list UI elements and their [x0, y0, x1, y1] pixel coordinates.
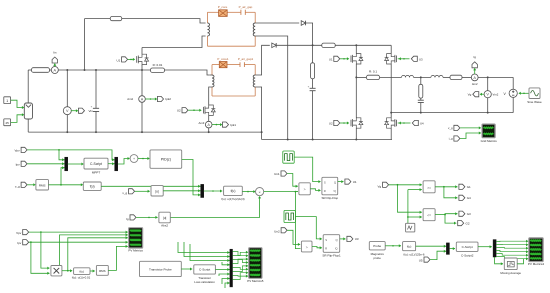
svg-text:U3: U3: [355, 237, 359, 241]
svg-text:Sine Wave: Sine Wave: [527, 100, 542, 104]
svg-text:U1: U1: [329, 57, 333, 61]
svg-text:i_g: i_g: [448, 137, 453, 141]
svg-text:C-Script2: C-Script2: [461, 253, 474, 257]
svg-text:f(u): f(u): [407, 245, 412, 249]
capacitor C_in: [95, 70, 97, 108]
node J4: [141, 69, 143, 71]
wire pulse1 to S: [294, 157, 320, 182]
wire Vpv run: [27, 150, 114, 160]
svg-text:!Q: !Q: [335, 247, 338, 251]
diode D2: [272, 43, 276, 48]
transistor Q1: [136, 56, 138, 63]
block Abs2: [159, 212, 170, 223]
goto tag U1: [345, 179, 351, 184]
node ob1: [420, 112, 422, 114]
scope Grid Metrics: [482, 124, 495, 138]
wire vb run: [389, 184, 422, 186]
wire scope in3 tap: [68, 238, 128, 271]
node g1: [287, 139, 289, 141]
wire source M1: [141, 65, 143, 70]
svg-text:×: ×: [258, 190, 260, 194]
wire left rail y47.5: [142, 36, 206, 48]
svg-text:v_g: v_g: [448, 126, 453, 130]
resistor Rf: [450, 75, 462, 79]
node carrier: [407, 216, 409, 218]
constant block 25: [4, 119, 11, 126]
svg-text:probe: probe: [373, 256, 381, 260]
goto tag G1: [459, 184, 465, 189]
wire left ground rail: [28, 131, 261, 133]
resistor R_top: [110, 17, 122, 21]
block Probe: [369, 242, 385, 250]
filter damping branch: [420, 77, 422, 84]
wire mux6 to moving average: [495, 257, 503, 264]
svg-text:Vin: Vin: [89, 109, 94, 113]
svg-text:A: A: [141, 98, 144, 102]
wire inverter out bottom: [391, 112, 513, 114]
svg-text:Grid Metrics: Grid Metrics: [481, 139, 498, 143]
goto tag G3: [459, 211, 465, 216]
svg-text:C-Script: C-Script: [90, 162, 102, 166]
wire rel2 to G3: [445, 213, 458, 216]
wire cmp1 to R: [310, 189, 320, 191]
wire vg2 to abs: [135, 190, 150, 192]
inductor L1: [402, 75, 414, 77]
svg-text:U2: U2: [177, 109, 181, 113]
svg-text:Probe: Probe: [373, 244, 381, 248]
wire FcnC to RMS2: [90, 270, 95, 272]
node g2: [312, 139, 314, 141]
wire T2 prim bottom to M2: [209, 87, 212, 105]
wire vpv to mux1: [59, 150, 65, 160]
goto tag G4: [459, 195, 465, 200]
node g3: [355, 139, 357, 141]
svg-text:RMS: RMS: [99, 269, 105, 273]
wire bridge leg1 top: [355, 45, 357, 53]
block RMS2: [96, 265, 108, 275]
block Transistor Probe: [140, 261, 182, 276]
svg-text:>: >: [304, 188, 306, 192]
wire Q2 to U3: [340, 238, 346, 240]
svg-text:<=: <=: [427, 214, 431, 218]
wire mux4 feeders: [178, 242, 230, 253]
wire mux5 to cscript2: [449, 248, 455, 250]
ammeter Am3: [205, 121, 212, 128]
wire D1 to DC node: [306, 23, 313, 45]
AC source Vgrid: [512, 77, 514, 89]
wire rel2 out: [435, 214, 445, 216]
svg-text:v_g: v_g: [15, 184, 20, 188]
wire sine to source: [520, 92, 529, 94]
svg-text:U5: U5: [419, 259, 423, 263]
svg-text:SR Flip-Flop: SR Flip-Flop: [321, 196, 338, 200]
block Moving Average: [504, 258, 517, 270]
wire probe2 to FcnD: [385, 245, 401, 247]
transformer T2 primary winding: [212, 75, 214, 87]
inductor L2: [431, 75, 443, 77]
wire M2 source to Am3: [208, 116, 210, 122]
wire Ig to abs2: [136, 216, 157, 218]
wire pulse2 to S2: [295, 217, 321, 239]
mux mux3: [201, 184, 204, 197]
svg-text:S: S: [324, 181, 326, 185]
wire carrier to rel2b: [408, 216, 422, 218]
svg-text:f(u): f(u): [90, 184, 95, 188]
wire cscript to mux4: [215, 269, 230, 271]
wire top rail y19: [85, 18, 111, 20]
wire inverter out top: [356, 76, 366, 78]
svg-text:C-Script: C-Script: [199, 268, 210, 272]
block Fcn B: [224, 186, 243, 195]
wire leg2 bottom: [390, 129, 392, 140]
svg-text:C-Script: C-Script: [462, 245, 473, 249]
svg-text:Un1: Un1: [274, 172, 280, 176]
svg-text:PID(z): PID(z): [161, 158, 171, 162]
wire T2 sec bottom down: [255, 87, 261, 140]
wire DC rail to bridge: [335, 44, 391, 46]
svg-text:Un2: Un2: [274, 229, 280, 233]
node rel2: [444, 214, 446, 216]
svg-text:v_g: v_g: [122, 191, 127, 195]
wire voltmeter branch: [66, 70, 68, 107]
block Abs: [151, 186, 163, 196]
constant block zero: [406, 223, 415, 232]
relational block GE: [423, 181, 435, 193]
svg-text:P_air_gap1: P_air_gap1: [238, 57, 254, 61]
svg-text:SR Flip-Flop1: SR Flip-Flop1: [322, 254, 341, 258]
block RMS: [36, 180, 49, 190]
wire cmp2 to R2: [312, 247, 322, 248]
svg-text:V: V: [66, 109, 69, 113]
wire FcnD to mux5: [416, 245, 447, 247]
wire M1 to Am4: [141, 70, 143, 96]
constant block 1: [4, 97, 11, 104]
resistor R_dc: [322, 43, 335, 47]
svg-text:U1: U1: [353, 180, 357, 184]
capacitor P_air_gap1: [239, 62, 241, 67]
source Pulse Generator: [283, 151, 294, 163]
goto tag U3: [347, 236, 353, 241]
transistor Q3: [350, 56, 352, 63]
svg-text:Am2: Am2: [472, 82, 478, 86]
wire div to cmp2: [295, 192, 300, 249]
wire PV top: [27, 70, 29, 103]
node filt: [420, 76, 422, 78]
node rail2: [95, 131, 97, 133]
wire Ipv to mux1: [27, 163, 64, 165]
block Fcn D: [403, 242, 416, 251]
svg-text:|u|: |u|: [155, 189, 159, 193]
wire T1 sec bottom: [255, 36, 288, 140]
svg-text:Ig: Ig: [473, 55, 476, 59]
voltmeter Vm2: [484, 91, 491, 98]
svg-text:>: >: [306, 245, 308, 249]
wire rel2 to G2: [445, 215, 456, 224]
node rail4: [208, 131, 210, 133]
ammeter Am4: [139, 96, 146, 103]
svg-text:Vg: Vg: [378, 184, 382, 188]
svg-text:A: A: [54, 69, 57, 73]
transformer T1 core loop: [208, 11, 219, 13]
wire scope in2 tap: [60, 235, 128, 265]
transformer T2 core loop: [212, 64, 219, 66]
svg-text:MPPT: MPPT: [92, 171, 101, 175]
compare block GT2: [301, 241, 312, 252]
node leg1 out: [355, 76, 357, 78]
node rail join: [261, 131, 263, 133]
svg-text:|u|: |u|: [163, 216, 167, 220]
mux mux6: [493, 240, 496, 257]
wire Ipv2 run: [29, 241, 128, 243]
node DC1: [312, 44, 314, 46]
goto tag Iin: [54, 64, 56, 67]
wires mux6 to scope4: [496, 240, 528, 242]
source block Sine Wave: [529, 88, 540, 99]
svg-text:+: +: [133, 157, 135, 161]
svg-text:A: A: [473, 76, 476, 80]
svg-text:P_core1: P_core1: [217, 57, 229, 61]
goto tag Ipk2: [145, 98, 155, 100]
node bridge top: [355, 44, 357, 46]
goto tag Ig: [474, 68, 476, 74]
source Pulse Generator1: [284, 210, 295, 222]
transistor Q2: [202, 107, 204, 114]
svg-text:G3: G3: [467, 212, 471, 216]
svg-text:Moving Average: Moving Average: [500, 271, 521, 275]
svg-text:Am4: Am4: [127, 97, 133, 101]
wire leg2 mid: [390, 64, 392, 117]
svg-text:G1: G1: [467, 185, 471, 189]
node rail3: [141, 131, 143, 133]
wire rel1 to G4: [444, 187, 458, 198]
node pv2: [30, 241, 32, 243]
block SR Flip-Flop: [322, 177, 338, 195]
transistor Q5: [350, 120, 352, 127]
wire mux3 to FcnB: [204, 190, 223, 192]
svg-text:1: 1: [6, 99, 8, 103]
wire bridge ground rail: [262, 139, 392, 141]
svg-text:Ipk2: Ipk2: [165, 97, 171, 101]
scope PV Metrics5: [249, 248, 263, 279]
node ob2: [487, 112, 489, 114]
wire Am3 to rail: [208, 128, 210, 132]
wire MPPT to mux2: [108, 163, 115, 165]
node J3: [84, 69, 86, 71]
svg-text:Ig: Ig: [126, 217, 129, 221]
wire bridge leg2 top: [390, 45, 392, 53]
svg-text:PV Metrics5: PV Metrics5: [247, 279, 264, 283]
block Fcn C: [74, 268, 90, 275]
svg-text:R: 0.1: R: 0.1: [369, 70, 377, 74]
block C-Script2: [456, 242, 478, 251]
wire leg1 mid: [355, 64, 357, 117]
svg-text:U1: U1: [116, 59, 120, 63]
svg-text:R: R: [324, 189, 326, 193]
svg-text:Ipk1: Ipk1: [230, 123, 236, 127]
node leg2 out: [390, 112, 392, 114]
wire carrier to rel1: [408, 189, 422, 191]
wire T1 sec top to D1: [255, 22, 299, 24]
svg-text:f(u): f(u): [231, 189, 236, 193]
svg-text:f(u): f(u): [80, 269, 85, 273]
node J2: [95, 69, 97, 71]
wire const1 to PV: [11, 100, 23, 107]
node div1: [295, 191, 297, 193]
scope PV Metrics: [129, 228, 143, 249]
svg-text:Vg: Vg: [468, 93, 472, 97]
node pv1: [40, 231, 42, 233]
DC link damping branch: [312, 45, 314, 63]
wire Un2 to cmp2: [287, 230, 300, 244]
block C-Script MPPT: [84, 158, 108, 169]
divide block: [256, 188, 264, 196]
svg-text:Ipv: Ipv: [17, 241, 22, 245]
svg-text:Am3: Am3: [199, 121, 205, 125]
wire vg to RMS: [27, 184, 34, 186]
svg-text:G2: G2: [466, 221, 470, 225]
svg-text:PV Metrics: PV Metrics: [128, 249, 143, 253]
svg-text:R: 0.01: R: 0.01: [153, 63, 163, 67]
svg-text:>=: >=: [427, 186, 431, 190]
goto tag Vin: [71, 110, 77, 112]
voltmeter Vm2 branch: [487, 77, 489, 90]
wire input top rail y70: [28, 69, 31, 71]
voltmeter Vm1: [63, 107, 71, 115]
svg-text:Abs2: Abs2: [161, 224, 168, 228]
wire ipv down to product: [31, 242, 50, 273]
mux mux2: [115, 157, 118, 171]
ammeter Am1: [51, 67, 58, 74]
svg-text:U4: U4: [420, 122, 424, 126]
wire T2 prim top: [210, 74, 212, 76]
goto tag G2 gate: [411, 56, 417, 61]
wire Am4 to rail: [141, 102, 143, 132]
node J1: [66, 69, 68, 71]
wire vb to rel2: [398, 185, 422, 212]
wire cscript2 to mux6: [478, 246, 492, 248]
wire mux2 to sum: [118, 159, 129, 165]
scope PV Metrics4: [529, 238, 544, 262]
compare block GT1: [299, 183, 310, 195]
node rail1: [66, 131, 68, 133]
block C-Script loss: [194, 265, 216, 274]
goto tag G2: [458, 221, 464, 226]
transformer T2 secondary winding: [253, 75, 255, 87]
svg-text:Transistor Probe: Transistor Probe: [149, 267, 172, 271]
svg-text:R: R: [325, 247, 327, 251]
goto tag vg: [481, 93, 485, 95]
wire Q to U1: [338, 181, 344, 183]
wire RMS2 up to scope: [108, 246, 128, 270]
svg-text:A: A: [207, 123, 210, 127]
wire vertical to top rail: [84, 19, 86, 70]
svg-text:G4: G4: [467, 196, 471, 200]
svg-text:Vm2: Vm2: [493, 93, 499, 97]
svg-text:PV Metrics4: PV Metrics4: [528, 262, 545, 266]
wire FcnA to mux3: [101, 185, 201, 187]
svg-text:Vpv: Vpv: [16, 231, 22, 235]
wire probe to cscript: [181, 268, 192, 270]
node rel1: [443, 186, 445, 188]
wire T2 sec top to D2: [255, 45, 270, 75]
svg-text:25: 25: [6, 121, 10, 125]
wire D2 to DC rail: [276, 44, 321, 46]
transformer T1 secondary winding: [253, 23, 255, 36]
block Fcn A: [83, 182, 101, 190]
node vb1: [397, 184, 399, 186]
svg-text:Iin: Iin: [53, 50, 57, 54]
wire vpv down to product: [41, 232, 50, 268]
wire leg1 bottom: [355, 129, 357, 140]
wire PV bottom: [27, 119, 29, 132]
wire div out: [264, 191, 298, 193]
node rms1: [60, 184, 62, 186]
block SR Flip-Flop1: [323, 235, 340, 253]
wire RMS out: [49, 184, 82, 186]
svg-text:RMS: RMS: [39, 183, 46, 187]
wire abs2 to div: [170, 198, 259, 218]
PV source block: [24, 103, 32, 119]
wire carrier vertical: [407, 190, 409, 225]
node out1: [487, 76, 489, 78]
sum block Add: [130, 155, 138, 163]
wire PID out to mux3: [182, 160, 201, 195]
wire FcnB to div: [242, 191, 254, 193]
wire div to cmp1 in2: [295, 191, 298, 193]
wire mux1 to MPPT: [68, 163, 83, 165]
wire sum to PID: [138, 158, 149, 160]
svg-text:Loss calculation: Loss calculation: [194, 280, 215, 284]
wire rms up to mux1: [61, 168, 65, 185]
svg-text:Ipv: Ipv: [16, 162, 21, 166]
wire drain M1: [141, 48, 143, 54]
block PID: [150, 150, 182, 168]
svg-text:f(u): u(1)+0.01: f(u): u(1)+0.01: [72, 276, 91, 280]
svg-text:Vpv: Vpv: [15, 148, 21, 152]
mux mux1: [65, 157, 68, 171]
svg-text:P_core: P_core: [218, 5, 228, 9]
svg-text:f(u): u(1)*u(2)/u(3): f(u): u(1)*u(2)/u(3): [221, 197, 244, 201]
svg-text:S: S: [325, 238, 327, 242]
wire U5 to mux5: [430, 251, 446, 259]
svg-text:U3: U3: [419, 57, 423, 61]
resistor R_in: [32, 68, 50, 73]
wires mux4 to scope5: [233, 252, 249, 256]
product block: [51, 266, 62, 276]
transformer T1 primary winding: [208, 23, 210, 36]
svg-text:!Q: !Q: [333, 189, 336, 193]
mux mux4: [230, 249, 233, 287]
node vpv1: [58, 149, 60, 151]
svg-text:U2: U2: [329, 122, 333, 126]
diode D1: [301, 21, 305, 26]
wire rel1 out: [435, 186, 457, 188]
transistor Q4: [396, 56, 398, 63]
svg-text:P_air_gap: P_air_gap: [239, 5, 253, 9]
wire abs to mux3: [163, 190, 201, 192]
svg-text:V: V: [486, 93, 489, 97]
wire Un1 to cmp1: [287, 174, 298, 187]
goto tag G4 gate: [412, 120, 418, 125]
wire Vpv2 run: [29, 231, 128, 233]
wire product out: [62, 270, 72, 272]
mux mux5: [446, 243, 449, 255]
goto tag Ipk1: [212, 124, 221, 126]
wire MA out: [517, 259, 523, 264]
transistor Q6: [396, 120, 398, 127]
relational block LE: [423, 209, 435, 221]
svg-text:f(u): u(1)/125e-6: f(u): u(1)/125e-6: [404, 252, 425, 256]
